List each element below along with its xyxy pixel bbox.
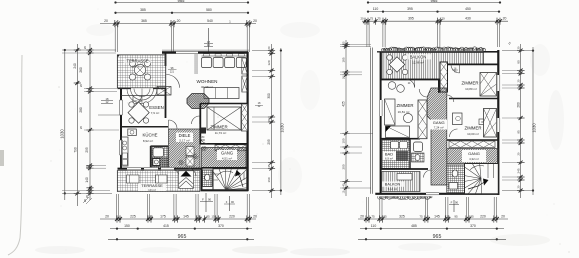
right plan outer wall left xyxy=(380,52,382,194)
svg-text:20: 20 xyxy=(441,17,445,21)
diele label xyxy=(176,133,193,143)
svg-text:385: 385 xyxy=(140,8,146,12)
zimmer right-middle small box xyxy=(479,119,489,125)
svg-text:ZIMMER: ZIMMER xyxy=(397,103,414,108)
bad tiled floor xyxy=(152,147,169,168)
terrace (upper left), tiled xyxy=(117,55,166,88)
svg-text:11,73 m²: 11,73 m² xyxy=(215,131,227,135)
svg-text:TERRASSE: TERRASSE xyxy=(126,59,148,64)
door size mark F90 below right plan xyxy=(449,200,459,212)
svg-text:965: 965 xyxy=(178,234,187,240)
right plan outer wall right xyxy=(497,50,499,195)
terrace round table xyxy=(134,64,145,75)
gang door arcs xyxy=(419,89,454,178)
bad dark shower xyxy=(396,151,408,161)
terrace door arc into wohnen xyxy=(166,74,179,87)
terrace chairs xyxy=(129,60,150,80)
svg-text:7,24 m²: 7,24 m² xyxy=(434,126,444,130)
svg-text:GANG: GANG xyxy=(468,151,480,156)
zimmer wall left xyxy=(199,104,201,144)
wc tiled floor xyxy=(203,170,213,187)
svg-text:20: 20 xyxy=(447,214,450,218)
svg-text:4,51 m²: 4,51 m² xyxy=(222,156,232,160)
tiny marks right of left plan wall xyxy=(255,102,263,108)
left plan outer wall bottom right part xyxy=(201,189,249,191)
tiny mark top right corner xyxy=(507,40,512,45)
lower balcony lounger xyxy=(397,174,412,181)
left plan right-side vertical chain xyxy=(267,44,275,198)
left zimmer label xyxy=(397,103,414,114)
bad label xyxy=(383,152,397,161)
stairs winder treads (right plan) xyxy=(455,153,493,205)
left plan outer vertical dimension line 1030 xyxy=(60,49,66,200)
door size mark 98/221 xyxy=(168,67,177,74)
svg-text:10,00 m²: 10,00 m² xyxy=(467,132,479,136)
right top total dimension line (clipped) xyxy=(367,0,501,4)
right top chain line 20/75/75/395/20/430/20 xyxy=(360,17,508,25)
svg-text:175: 175 xyxy=(160,214,166,218)
right plan right-side total line 1030 xyxy=(532,47,537,195)
svg-text:185: 185 xyxy=(342,57,346,62)
extension lines from top chain to left plan xyxy=(115,24,249,52)
right plan window openings xyxy=(379,75,500,195)
gang label xyxy=(431,120,448,130)
lower terrace label xyxy=(138,183,166,192)
zimmer top right bed (right wall) xyxy=(480,73,497,97)
chimney block xyxy=(201,128,207,134)
zimmer bed (horizontal) xyxy=(207,107,241,130)
entry door arc xyxy=(133,96,142,105)
svg-text:75: 75 xyxy=(419,214,423,218)
svg-text:DIELE: DIELE xyxy=(179,133,191,138)
svg-text:965: 965 xyxy=(431,0,439,3)
lower balcony label xyxy=(382,181,404,190)
balcony (top) floor with plank hatch xyxy=(382,53,484,80)
svg-text:110: 110 xyxy=(373,7,379,11)
door size mark F90 below left plan xyxy=(200,193,213,212)
kueche label xyxy=(142,133,157,143)
svg-text:20: 20 xyxy=(360,17,364,21)
svg-text:20: 20 xyxy=(177,19,181,23)
gang hatched floor xyxy=(202,148,247,168)
bad tub xyxy=(153,148,164,157)
svg-text:90: 90 xyxy=(208,198,212,202)
bad tiled floor (right plan) xyxy=(382,140,410,169)
window mark above left plan xyxy=(204,28,213,52)
svg-text:110: 110 xyxy=(371,224,377,228)
svg-text:4,32 m²: 4,32 m² xyxy=(469,157,479,161)
wall right of bad xyxy=(409,140,411,169)
svg-text:ZIMMER: ZIMMER xyxy=(465,126,482,131)
svg-text:6,9 m²: 6,9 m² xyxy=(385,157,393,161)
svg-text:20: 20 xyxy=(501,214,505,218)
left bottom chain line with small dims xyxy=(100,214,257,222)
small closet boxes left of gang xyxy=(186,147,194,167)
wall below top-right zimmer xyxy=(449,98,498,100)
small gang hatched floor xyxy=(447,149,499,164)
diele door arcs xyxy=(169,116,200,129)
svg-text:985: 985 xyxy=(178,0,186,3)
svg-text:95: 95 xyxy=(516,130,520,134)
tiny dim marks near diele xyxy=(201,146,208,152)
left zimmer wardrobe xyxy=(385,99,396,125)
svg-text:300: 300 xyxy=(267,93,271,99)
wardrobe strip left of wohnen xyxy=(157,87,171,96)
diele hatched floor xyxy=(169,129,201,168)
extension lines from right top chain to plan xyxy=(367,21,500,47)
left plan right-side total line 1030 xyxy=(280,48,285,195)
window sill mark 18/12 on left wall xyxy=(98,97,121,115)
top-right zimmer top wall xyxy=(448,63,499,65)
door arc from balcony into left zimmer xyxy=(407,80,415,88)
svg-text:75: 75 xyxy=(371,214,375,218)
svg-text:20: 20 xyxy=(83,46,87,50)
kueche counter left xyxy=(122,137,129,166)
wohnen sofa group along top xyxy=(202,54,248,68)
tiled stove (octagon) xyxy=(187,94,209,109)
zimmer wall top xyxy=(200,103,247,105)
hall door arcs xyxy=(171,169,196,177)
zimmer right-middle label xyxy=(465,126,482,136)
svg-text:295: 295 xyxy=(267,139,271,145)
svg-text:85: 85 xyxy=(206,214,210,218)
svg-text:20: 20 xyxy=(267,46,271,50)
tiny door size mark xyxy=(452,68,458,74)
hedge below lower balcony xyxy=(378,196,433,200)
wohnen shelf right wall xyxy=(242,58,248,92)
small gang label xyxy=(462,150,486,162)
svg-text:260: 260 xyxy=(79,67,83,73)
left top dimension line 385/580 xyxy=(114,8,249,14)
gang label xyxy=(217,150,237,160)
left top chain line 20/365/20/540/20 xyxy=(100,19,257,27)
left bottom total dimension line 965 xyxy=(108,234,254,240)
svg-text:85: 85 xyxy=(383,214,387,218)
zimmer top right label xyxy=(462,81,479,92)
wc toilet xyxy=(205,174,210,181)
balcony bottom wall xyxy=(381,79,440,81)
lower balcony floor xyxy=(382,172,420,192)
svg-text:325: 325 xyxy=(399,214,405,218)
svg-text:20: 20 xyxy=(253,214,257,218)
wc fixtures xyxy=(449,170,458,189)
svg-text:145: 145 xyxy=(183,214,189,218)
left plan middle vertical chain 240/790 xyxy=(73,44,81,206)
svg-text:5,14 m²: 5,14 m² xyxy=(388,187,398,191)
zimmer right-middle bed xyxy=(484,109,497,138)
svg-text:20: 20 xyxy=(79,126,83,130)
svg-text:24,78 m²: 24,78 m² xyxy=(132,64,144,68)
svg-text:1030: 1030 xyxy=(60,129,65,139)
right plan balcony slab edge (outer double line) xyxy=(371,48,373,194)
svg-text:WOHNEN: WOHNEN xyxy=(197,79,218,84)
svg-text:365: 365 xyxy=(141,19,147,23)
svg-text:200: 200 xyxy=(194,157,199,160)
closet strip with x-boxes xyxy=(449,141,495,148)
svg-text:85: 85 xyxy=(470,214,474,218)
extension lines right plan right chain xyxy=(502,51,533,191)
left plan wall between entry and wohnen xyxy=(165,53,167,119)
svg-text:90: 90 xyxy=(455,201,459,205)
small 20 mark bottom left of plan xyxy=(83,197,92,204)
entrance arrow triangle xyxy=(181,171,192,177)
left plan wall top of essen (below terrace) xyxy=(118,88,166,90)
right plan outer wall bottom xyxy=(375,193,499,195)
hedge/plants along top edge xyxy=(382,47,486,51)
svg-text:370: 370 xyxy=(218,224,224,228)
window openings in bottom wall xyxy=(127,167,174,170)
svg-text:580: 580 xyxy=(206,8,212,12)
svg-text:20: 20 xyxy=(85,165,89,169)
left zimmer chairs at top xyxy=(388,82,404,93)
wc room right of bad xyxy=(412,142,425,162)
terrace label xyxy=(124,59,151,69)
right bottom total dimension line 965 xyxy=(358,234,506,240)
svg-text:50: 50 xyxy=(149,214,153,218)
left plan roof overhang line above top wall xyxy=(162,49,250,51)
svg-text:7,9 m²: 7,9 m² xyxy=(151,111,160,115)
svg-text:20: 20 xyxy=(79,84,83,88)
entry porch steps xyxy=(121,89,165,104)
left plan inner vertical chain 20/260/20/280/20/295/20/140/20 xyxy=(79,44,94,200)
svg-text:150: 150 xyxy=(124,224,130,228)
svg-text:395: 395 xyxy=(408,17,414,21)
svg-text:450: 450 xyxy=(465,7,471,11)
window left wall kueche xyxy=(119,140,122,155)
svg-text:200: 200 xyxy=(201,139,206,142)
svg-text:430: 430 xyxy=(465,17,471,21)
svg-text:75: 75 xyxy=(370,17,374,21)
wall below right-middle zimmer xyxy=(447,139,499,141)
svg-text:120: 120 xyxy=(267,60,271,65)
bookshelf dash column xyxy=(194,55,198,73)
svg-text:ZIMMER: ZIMMER xyxy=(210,124,227,129)
bad washbasins xyxy=(391,142,408,149)
svg-text:20: 20 xyxy=(253,19,257,23)
svg-text:20: 20 xyxy=(104,19,108,23)
svg-text:140: 140 xyxy=(85,177,89,183)
stairs well xyxy=(213,169,247,190)
svg-text:260: 260 xyxy=(516,102,520,108)
extension lines from right plan down to bottom chain xyxy=(366,197,496,219)
left zimmer round table xyxy=(403,113,412,122)
left plan wall left of wc xyxy=(201,168,203,191)
svg-text:395: 395 xyxy=(407,7,413,11)
stairs winder treads xyxy=(209,160,256,190)
right plan top wall right segment above zimmer xyxy=(484,51,499,53)
svg-text:1030: 1030 xyxy=(532,123,537,133)
svg-text:BALKON: BALKON xyxy=(385,182,401,186)
left top total dimension line 985 (clipped at top) xyxy=(114,0,249,4)
svg-text:20: 20 xyxy=(267,118,271,122)
left plan outer wall top xyxy=(162,51,248,53)
left plan wall bottom of kueche/bad (above lower terrace) xyxy=(118,168,203,170)
zimmer right-middle desk xyxy=(453,113,463,125)
essen table (rotated) with chairs xyxy=(128,102,149,123)
kueche upper box xyxy=(128,129,137,136)
window openings in top wall xyxy=(176,51,198,54)
svg-text:20: 20 xyxy=(503,17,507,21)
svg-text:10 m²: 10 m² xyxy=(148,188,156,192)
svg-text:75: 75 xyxy=(377,17,381,21)
zimmer label xyxy=(210,124,227,135)
svg-text:F: F xyxy=(451,201,453,205)
svg-text:370: 370 xyxy=(470,224,476,228)
left plan outer wall right xyxy=(247,52,249,191)
svg-text:45: 45 xyxy=(267,164,271,168)
essen wall under (y 128) xyxy=(121,126,168,128)
right plan right-side vertical chain xyxy=(516,44,524,198)
door size mark F90 below stairs xyxy=(224,196,235,211)
scan smudge at left edge xyxy=(0,150,4,166)
wc tiled (right plan) xyxy=(447,165,465,194)
stairs arrow xyxy=(237,172,244,188)
svg-text:540: 540 xyxy=(207,19,213,23)
wohnen coffee table xyxy=(204,88,239,99)
svg-text:80: 80 xyxy=(516,60,520,64)
wall below gang xyxy=(202,167,248,169)
svg-text:225: 225 xyxy=(130,214,136,218)
essen label xyxy=(132,100,164,115)
wohnen label xyxy=(197,79,218,89)
balcony label xyxy=(406,54,431,64)
closet strip along gang top xyxy=(215,145,246,151)
svg-text:790: 790 xyxy=(74,147,78,153)
svg-text:415: 415 xyxy=(163,224,169,228)
svg-text:ZIMMER: ZIMMER xyxy=(462,81,479,86)
svg-text:12,98 m²: 12,98 m² xyxy=(412,61,424,65)
bad washer xyxy=(153,159,160,166)
tiny interior dim marks hall xyxy=(178,154,200,167)
svg-text:F: F xyxy=(202,198,204,202)
svg-text:280: 280 xyxy=(79,107,83,113)
svg-text:95: 95 xyxy=(454,214,458,218)
svg-text:20: 20 xyxy=(360,214,364,218)
left plan outer wall left (essen/kueche) xyxy=(120,88,122,168)
svg-text:GANG: GANG xyxy=(433,120,445,125)
svg-text:425: 425 xyxy=(342,101,346,107)
right bottom chain line with small dims xyxy=(358,214,508,222)
balcony diamond table and chairs xyxy=(387,55,408,75)
extension lines right plan left chain xyxy=(340,45,373,189)
svg-text:200: 200 xyxy=(342,164,346,169)
svg-text:ESSEN: ESSEN xyxy=(149,105,164,110)
svg-text:240: 240 xyxy=(73,63,77,69)
stairs well (right plan) xyxy=(465,164,499,194)
svg-text:1030: 1030 xyxy=(280,123,285,133)
svg-text:100: 100 xyxy=(342,138,346,143)
wall kueche/bad xyxy=(150,146,152,168)
wall below wardrobe column xyxy=(438,80,440,94)
svg-text:221: 221 xyxy=(170,70,175,73)
entrance steps gap xyxy=(179,171,194,189)
svg-text:245: 245 xyxy=(516,168,520,173)
svg-text:10,80 m²: 10,80 m² xyxy=(465,87,477,91)
scan page edge line at left xyxy=(8,55,22,255)
svg-text:GANG: GANG xyxy=(221,151,233,156)
gang central hatched band xyxy=(427,88,447,185)
svg-text:295: 295 xyxy=(85,147,89,153)
svg-text:BALKON: BALKON xyxy=(410,54,427,59)
svg-text:100: 100 xyxy=(179,163,184,166)
svg-text:5,17 m²: 5,17 m² xyxy=(179,138,189,142)
extension lines from left plan down to bottom chain xyxy=(116,194,249,219)
right plan left-side vertical chain xyxy=(342,40,350,196)
wall below left zimmer xyxy=(381,138,420,140)
zimmer wardrobe column right wall xyxy=(242,104,248,131)
svg-text:485: 485 xyxy=(411,224,417,228)
svg-text:145: 145 xyxy=(434,214,440,218)
svg-text:220: 220 xyxy=(229,214,235,218)
svg-text:40,98 m²: 40,98 m² xyxy=(201,85,213,89)
door arc bottom-left of right-middle zimmer xyxy=(450,129,458,137)
zimmer door arc bottom-left xyxy=(200,136,207,144)
right top dimension line 110/395/450 xyxy=(367,7,500,13)
wardrobe column right of left zimmer xyxy=(418,100,427,139)
svg-text:160: 160 xyxy=(267,177,271,182)
right bottom dimension line 110/485/370 xyxy=(360,224,504,230)
stairs arrow (right plan) xyxy=(468,181,486,189)
zimmer wall bottom xyxy=(200,143,248,145)
extension lines from left chain to plan wall xyxy=(62,50,119,193)
svg-text:20: 20 xyxy=(105,214,109,218)
wall below bad xyxy=(381,168,428,170)
lower terrace loungers xyxy=(127,175,168,183)
svg-text:16,81 m²: 16,81 m² xyxy=(398,110,410,114)
left bottom dimension line 150/415/380 xyxy=(110,224,252,230)
left zimmer bed xyxy=(386,126,410,138)
svg-text:20: 20 xyxy=(83,199,87,203)
svg-text:8,92 m²: 8,92 m² xyxy=(143,139,153,143)
svg-text:965: 965 xyxy=(433,234,442,240)
svg-text:1,78 1,98: 1,78 1,98 xyxy=(132,100,143,103)
extension lines from left plan to right chain xyxy=(252,51,281,191)
wardrobe column next to balcony xyxy=(440,62,448,92)
lower terrace tiled xyxy=(117,171,200,192)
window left wall essen xyxy=(119,100,122,115)
door arc into top-right zimmer xyxy=(451,64,460,73)
svg-text:220: 220 xyxy=(480,214,486,218)
svg-text:KÜCHE: KÜCHE xyxy=(142,133,157,138)
right plan outer wall top (balcony rail) xyxy=(377,51,484,53)
